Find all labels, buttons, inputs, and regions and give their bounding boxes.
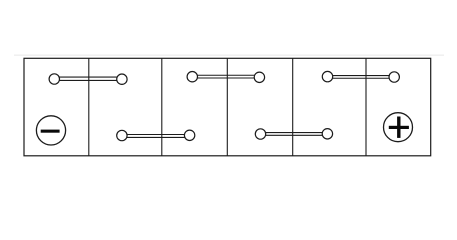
cell post circle 3 (187, 72, 197, 82)
inter-cell link bar bottom 1 (122, 135, 190, 138)
cell divider 1 (88, 58, 90, 156)
cell post circle 10 (322, 129, 332, 139)
cell post circle 6 (389, 72, 399, 82)
cell post circle 8 (184, 130, 194, 140)
cell divider 5 (365, 58, 367, 156)
negative terminal circle (36, 116, 65, 145)
positive terminal plus sign horizontal bar (389, 126, 409, 129)
battery case BT1 (24, 58, 431, 156)
cell post circle 5 (322, 71, 332, 81)
inter-cell link bar bottom 2 (261, 133, 328, 136)
cell divider 4 (292, 58, 294, 156)
cell divider 3 (226, 58, 228, 156)
positive terminal circle (384, 113, 413, 142)
cell post circle 9 (255, 129, 265, 139)
inter-cell link bar top 3 (328, 76, 395, 79)
cell post circle 2 (117, 74, 127, 84)
positive terminal plus sign vertical bar (397, 117, 400, 138)
cell divider 2 (161, 58, 163, 156)
inter-cell link bar top 2 (192, 75, 259, 78)
inter-cell link bar top 1 (54, 77, 122, 80)
negative terminal minus sign (41, 130, 60, 133)
faint horizontal rule above battery (14, 54, 444, 56)
cell post circle 4 (254, 72, 264, 82)
cell post circle 7 (117, 130, 127, 140)
cell post circle 1 (49, 74, 59, 84)
